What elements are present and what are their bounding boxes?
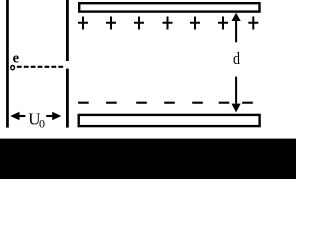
svg-text:0: 0	[39, 117, 45, 131]
top capacitor plate	[79, 3, 259, 11]
electron beam dashed trajectory	[17, 66, 65, 68]
anode electrode line (right vertical), lower segment	[66, 69, 69, 128]
anode electrode line (right vertical), upper segment	[66, 0, 69, 61]
electron source circle o	[11, 65, 15, 69]
cathode electrode line (left vertical)	[6, 0, 9, 128]
svg-text:e: e	[13, 50, 20, 66]
minus charge row above bottom plate	[78, 102, 253, 104]
svg-text:d: d	[233, 49, 240, 68]
bottom black band	[0, 139, 296, 179]
plate distance dimension upper arrow (pointing up to top plate)	[232, 13, 241, 43]
accelerating voltage right arrow	[46, 112, 61, 120]
plus charge row on top plate	[78, 17, 258, 30]
accelerating voltage left arrow	[10, 112, 25, 120]
plate distance dimension lower arrow (pointing down to bottom plate)	[232, 77, 241, 113]
bottom capacitor plate	[79, 115, 260, 126]
